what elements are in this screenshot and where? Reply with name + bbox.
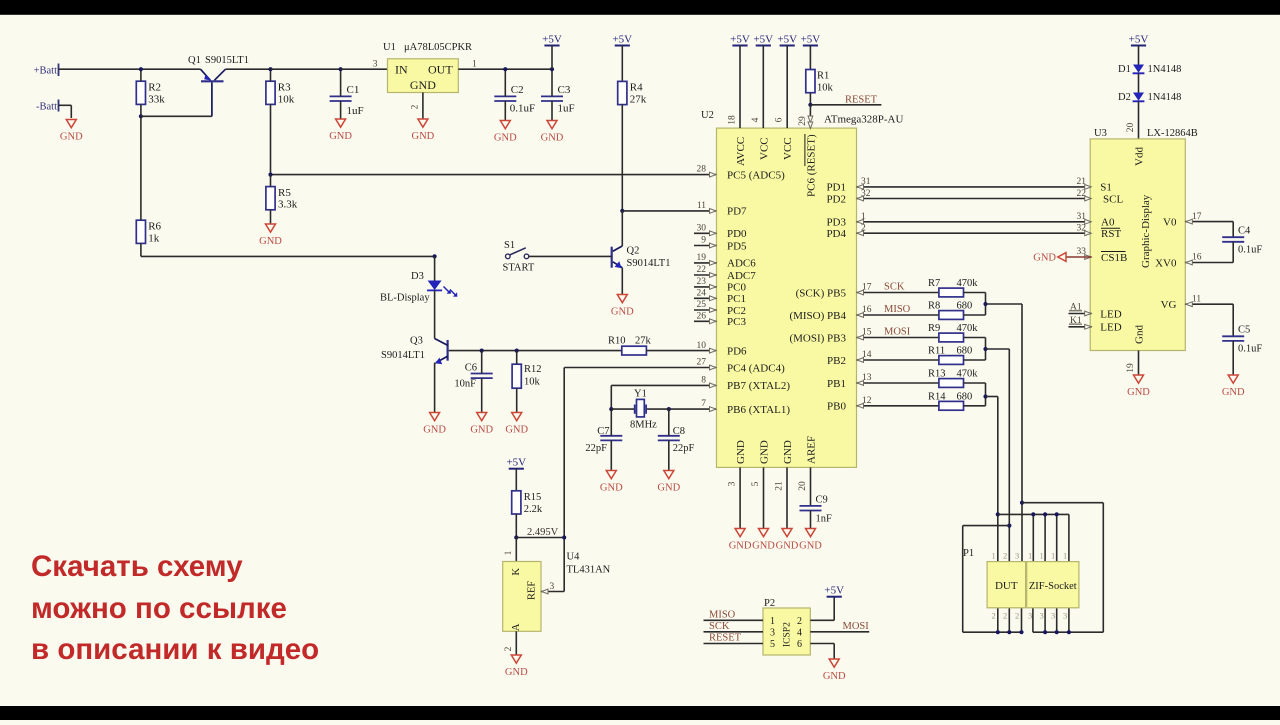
node -Batt terminal xyxy=(36,100,59,113)
wire net2 P1 frame xyxy=(963,526,1022,633)
svg-text:D2: D2 xyxy=(1118,92,1131,103)
svg-text:3: 3 xyxy=(1063,611,1067,621)
junction DUT bottom a xyxy=(996,630,1000,634)
pin number 1 U4 xyxy=(504,550,514,555)
wire net DUT1 vertical xyxy=(997,397,999,562)
ground R5 xyxy=(259,224,282,247)
pin 9 PD5 xyxy=(694,236,747,253)
label D3 xyxy=(380,271,430,304)
junction R12 top xyxy=(515,349,519,353)
svg-text:SCL: SCL xyxy=(1103,193,1123,205)
svg-text:19: 19 xyxy=(697,253,707,263)
wire net3 to ZIF bottom xyxy=(1022,503,1103,633)
svg-text:2.495V: 2.495V xyxy=(527,527,559,538)
svg-text:GND: GND xyxy=(752,541,775,552)
caption line 1 xyxy=(31,550,243,583)
label U3 xyxy=(1094,128,1107,139)
svg-text:20: 20 xyxy=(798,481,808,491)
power +5V at P2 xyxy=(824,585,844,597)
wire ZIF bottom pin d xyxy=(1068,608,1070,632)
label U1 GND xyxy=(410,78,436,92)
svg-text:R11: R11 xyxy=(928,346,945,357)
LED D3 xyxy=(427,281,457,297)
wire C5 bottom lead xyxy=(1232,341,1234,375)
svg-text:1: 1 xyxy=(472,59,477,69)
svg-text:+5V: +5V xyxy=(777,33,797,45)
svg-text:PD7: PD7 xyxy=(727,206,747,218)
svg-text:27k: 27k xyxy=(635,336,652,347)
wire R7-R8 join xyxy=(985,293,987,316)
wire net DUT3 vertical xyxy=(1021,304,1023,562)
svg-text:RESET: RESET xyxy=(845,95,878,106)
svg-text:PC4 (ADC4): PC4 (ADC4) xyxy=(727,362,785,374)
svg-text:ADC7: ADC7 xyxy=(727,270,756,282)
pin 17 PB5 xyxy=(796,282,939,300)
pin 14 PB2 xyxy=(827,350,939,367)
wire GND pin21 xyxy=(786,467,788,528)
svg-text:+Batt: +Batt xyxy=(34,66,58,77)
svg-text:C8: C8 xyxy=(673,426,685,437)
pin 28 PC5 (ADC5) xyxy=(697,165,786,182)
svg-text:Q1: Q1 xyxy=(188,55,201,66)
pin number 8 xyxy=(701,376,706,386)
pin 22 ADC7 xyxy=(694,265,756,282)
wire C8 top lead xyxy=(668,409,670,436)
label GND pin21 xyxy=(782,440,794,464)
svg-text:V0: V0 xyxy=(1163,216,1177,228)
label Q2 xyxy=(627,246,671,269)
junction R2 bottom / Q1 base xyxy=(139,114,143,118)
svg-text:+5V: +5V xyxy=(506,457,526,469)
junction 2.495V right xyxy=(562,535,566,539)
svg-text:+5V: +5V xyxy=(824,585,844,597)
svg-text:PC3: PC3 xyxy=(727,316,746,328)
svg-text:MISO: MISO xyxy=(709,610,736,621)
svg-text:GND: GND xyxy=(799,541,822,552)
wire C8 bottom lead xyxy=(668,440,670,470)
capacitor C7 xyxy=(585,426,622,454)
ground U2 pin5 xyxy=(752,529,775,552)
svg-text:1nF: 1nF xyxy=(816,514,833,525)
svg-text:GND: GND xyxy=(657,483,680,494)
svg-text:REF: REF xyxy=(527,581,538,600)
pin 32 PD2 wire xyxy=(826,189,1091,205)
wire 2.495V net xyxy=(516,537,564,539)
svg-text:GND: GND xyxy=(494,133,517,144)
svg-text:33k: 33k xyxy=(148,93,165,105)
wire ZIF bottom pin c xyxy=(1056,608,1058,632)
connector P1 DUT body xyxy=(987,562,1026,608)
pin number 19 U3 xyxy=(1126,363,1136,373)
svg-text:17: 17 xyxy=(1192,212,1202,222)
svg-text:23: 23 xyxy=(697,277,707,287)
svg-text:START: START xyxy=(503,263,535,274)
ground CS1B arrow xyxy=(1033,253,1066,264)
label U4 xyxy=(567,552,611,576)
pin number 10 xyxy=(697,341,707,351)
svg-text:PD4: PD4 xyxy=(826,228,846,240)
pin 31 PD1 wire xyxy=(826,177,1091,194)
pin number 2 of U1 xyxy=(410,105,420,110)
pin 11 PD7 xyxy=(697,201,747,218)
svg-text:1: 1 xyxy=(1051,551,1055,561)
pin 11 VG xyxy=(1161,294,1234,311)
pin number 29 xyxy=(798,116,808,126)
wire ZIF bottom pin b xyxy=(1044,608,1046,632)
svg-text:Q3: Q3 xyxy=(410,336,423,347)
pin number 20 bottom xyxy=(798,481,808,491)
power +5V at R15 xyxy=(506,457,526,491)
ground R12 xyxy=(505,413,528,436)
caption line 2 xyxy=(31,592,287,625)
wire AREF lead xyxy=(810,467,812,506)
wire DUT bottom pin a xyxy=(997,608,999,632)
svg-text:8: 8 xyxy=(701,376,706,386)
wire R9-R11 join xyxy=(985,338,987,361)
svg-text:GND: GND xyxy=(259,236,282,247)
svg-text:3.3k: 3.3k xyxy=(278,199,298,211)
svg-text:27: 27 xyxy=(697,358,707,368)
svg-text:GND: GND xyxy=(505,425,528,436)
svg-text:GND: GND xyxy=(410,78,436,92)
pin number 20 U3 xyxy=(1126,123,1136,133)
svg-text:1: 1 xyxy=(861,212,866,222)
svg-text:1: 1 xyxy=(770,616,775,627)
svg-text:2: 2 xyxy=(1003,551,1007,561)
resistor R15 xyxy=(512,491,543,515)
pin 33 CS1B xyxy=(1077,247,1128,264)
svg-text:TL431AN: TL431AN xyxy=(567,565,611,576)
wire ZIF top pin d xyxy=(1068,514,1070,561)
svg-text:1N4148: 1N4148 xyxy=(1148,64,1182,75)
ground -Batt xyxy=(60,120,83,143)
svg-text:4: 4 xyxy=(797,628,802,639)
svg-text:DUT: DUT xyxy=(995,580,1018,592)
svg-text:R6: R6 xyxy=(148,221,161,233)
transistor Q2 xyxy=(612,246,623,268)
svg-text:25: 25 xyxy=(697,300,707,310)
ground U2 pin3 xyxy=(729,529,752,552)
pin 25 PC2 xyxy=(694,300,746,317)
junction C3 top xyxy=(550,67,554,71)
svg-text:470k: 470k xyxy=(957,369,979,380)
svg-text:+5V: +5V xyxy=(1129,33,1149,45)
svg-text:R3: R3 xyxy=(278,82,291,94)
pin 13 PB1 xyxy=(827,373,939,390)
pin 4 MOSI wire xyxy=(810,621,869,632)
wire CS1B gnd xyxy=(1066,256,1092,258)
resistor R8 xyxy=(928,301,986,320)
capacitor C1 xyxy=(330,84,364,117)
svg-text:2: 2 xyxy=(410,105,420,110)
wire C1 top lead xyxy=(340,69,342,96)
wire R13R14 to DUT1 xyxy=(986,396,998,398)
resistor R9 xyxy=(928,323,986,342)
svg-text:PC5 (ADC5): PC5 (ADC5) xyxy=(727,169,785,181)
wire R1 to RESET node xyxy=(809,93,811,105)
pin number 4 xyxy=(751,117,761,122)
wire D1 to D2 xyxy=(1138,73,1140,92)
svg-text:RESET: RESET xyxy=(709,633,742,644)
wire main to C1 node xyxy=(271,68,341,70)
junction ZIF b xyxy=(1043,512,1047,516)
svg-text:10k: 10k xyxy=(524,377,541,388)
wire PC4 down to REF xyxy=(563,368,565,592)
wire PD7 xyxy=(622,210,716,212)
wire PC4 pin xyxy=(564,367,716,369)
wire C1 bottom lead xyxy=(340,101,342,119)
svg-text:(MOSI) PB3: (MOSI) PB3 xyxy=(789,332,846,344)
svg-text:GND: GND xyxy=(1222,387,1245,398)
svg-text:3: 3 xyxy=(770,628,775,639)
wire GND pin3 xyxy=(739,467,741,528)
svg-text:PD5: PD5 xyxy=(727,240,747,252)
wire U4 pin2 lead xyxy=(515,631,517,655)
pin name PB7 xyxy=(710,380,791,392)
pin number 2 U4 xyxy=(504,646,514,651)
resistor R12 xyxy=(512,364,541,388)
svg-text:S9014LT1: S9014LT1 xyxy=(627,258,671,269)
resistor R6 xyxy=(136,220,161,244)
wire DUT bottom pin c xyxy=(1021,608,1023,632)
junction ZIF bottom b xyxy=(1043,630,1047,634)
svg-text:U2: U2 xyxy=(701,110,714,121)
pin K1 LED xyxy=(1069,316,1122,334)
pin name PC4 xyxy=(710,362,786,374)
wire R3 top lead xyxy=(270,69,272,81)
wire R7R8 to DUT3 xyxy=(986,303,1023,305)
svg-text:LED: LED xyxy=(1100,322,1121,334)
svg-text:C4: C4 xyxy=(1238,225,1251,236)
svg-text:2: 2 xyxy=(797,616,802,627)
svg-text:1uF: 1uF xyxy=(558,102,575,114)
wire Q1 base to R2 xyxy=(141,115,212,117)
svg-text:C9: C9 xyxy=(816,495,828,506)
svg-text:R7: R7 xyxy=(928,278,940,289)
svg-text:3: 3 xyxy=(373,59,378,69)
svg-text:GND: GND xyxy=(1127,387,1150,398)
junction R3 top xyxy=(268,67,272,71)
power +5V pin 6 xyxy=(777,33,797,128)
svg-text:C6: C6 xyxy=(465,363,477,374)
svg-text:32: 32 xyxy=(861,189,871,199)
wire C2 top lead xyxy=(504,69,506,96)
junction net3 corner xyxy=(1020,501,1024,505)
svg-text:Q2: Q2 xyxy=(627,246,640,257)
power +5V at R4 xyxy=(612,33,632,81)
svg-text:GND: GND xyxy=(611,307,634,318)
capacitor C3 xyxy=(541,84,575,114)
svg-text:S9014LT1: S9014LT1 xyxy=(381,350,425,361)
wire PB6 pin xyxy=(669,408,717,410)
svg-text:12: 12 xyxy=(862,396,872,406)
svg-text:33: 33 xyxy=(1077,247,1087,257)
ground C1 xyxy=(329,119,352,142)
label Vdd xyxy=(1134,147,1146,166)
pin 22 SCL xyxy=(1077,189,1124,205)
svg-text:GND: GND xyxy=(729,541,752,552)
label ATmega328P-AU xyxy=(824,114,903,126)
svg-text:C5: C5 xyxy=(1238,324,1250,335)
wire C3 top lead xyxy=(551,69,553,96)
svg-text:K: K xyxy=(511,568,522,576)
svg-text:SCK: SCK xyxy=(884,282,905,293)
wire Q2 emitter lead xyxy=(621,268,623,295)
svg-text:3: 3 xyxy=(1028,611,1032,621)
ground C2 xyxy=(494,121,517,144)
pin 31 A0 xyxy=(1077,212,1121,229)
svg-text:3: 3 xyxy=(1051,611,1055,621)
ground Q2 xyxy=(611,295,634,318)
ground U3 xyxy=(1127,375,1150,398)
svg-text:D1: D1 xyxy=(1118,64,1131,75)
label RESET net xyxy=(845,95,878,106)
svg-text:0.1uF: 0.1uF xyxy=(1238,344,1262,355)
svg-text:μA78L05CPKR: μA78L05CPKR xyxy=(404,42,472,53)
svg-text:470k: 470k xyxy=(957,323,979,334)
resistor R2 xyxy=(136,81,165,105)
junction R13R14 xyxy=(983,394,987,398)
wire -Batt to ground xyxy=(59,105,72,118)
svg-text:R13: R13 xyxy=(928,369,946,380)
svg-text:PD0: PD0 xyxy=(727,228,747,240)
svg-text:11: 11 xyxy=(1192,294,1201,304)
label VCC pin6 xyxy=(782,137,794,160)
svg-text:10: 10 xyxy=(697,341,707,351)
svg-text:GND: GND xyxy=(1033,253,1056,264)
label 2.495V xyxy=(527,527,559,538)
svg-text:0.1uF: 0.1uF xyxy=(510,102,535,114)
svg-text:1uF: 1uF xyxy=(347,105,364,117)
label U1 OUT xyxy=(428,63,453,77)
svg-text:1: 1 xyxy=(1040,551,1044,561)
op-amp U1 regulator body xyxy=(388,59,459,93)
svg-text:C3: C3 xyxy=(558,84,571,96)
wire C4 to XV0 xyxy=(1232,242,1234,263)
pin number 6 xyxy=(775,117,785,122)
svg-text:LX-12864B: LX-12864B xyxy=(1147,128,1198,139)
svg-text:Скачать схему: Скачать схему xyxy=(31,550,243,583)
resistor R3 xyxy=(266,81,295,105)
pin number 21 bottom xyxy=(775,481,785,491)
transistor Q3 xyxy=(435,339,448,365)
junction ZIF a xyxy=(1031,512,1035,516)
label AVCC xyxy=(735,137,747,166)
letterbox top bar xyxy=(0,0,1280,15)
wire U3 Gnd lead xyxy=(1138,351,1140,376)
wire D3 anode lead xyxy=(434,256,436,280)
wire ZIF top pin b xyxy=(1044,514,1046,561)
junction R3/R5/PC5 xyxy=(268,173,272,177)
svg-text:2: 2 xyxy=(861,223,866,233)
junction RESET xyxy=(808,103,812,107)
resistor R13 xyxy=(928,369,986,388)
junction net2 corner xyxy=(1007,524,1011,528)
wire RESET net xyxy=(810,104,881,106)
svg-text:13: 13 xyxy=(862,373,872,383)
svg-text:LED: LED xyxy=(1100,308,1121,320)
wire Q1 collector to R3 node xyxy=(226,68,271,70)
label Y1 xyxy=(630,389,657,431)
svg-text:1: 1 xyxy=(1063,551,1067,561)
svg-text:PB6 (XTAL1): PB6 (XTAL1) xyxy=(727,404,790,416)
resistor R11 xyxy=(928,346,986,365)
svg-text:R9: R9 xyxy=(928,323,940,334)
svg-text:PD6: PD6 xyxy=(727,345,747,357)
svg-text:PC6 (RESET): PC6 (RESET) xyxy=(805,134,817,197)
pin number 18 xyxy=(728,115,738,125)
diode D2 xyxy=(1133,93,1145,102)
wire R2 bottom lead xyxy=(140,104,142,116)
svg-text:+5V: +5V xyxy=(542,33,562,45)
svg-text:11: 11 xyxy=(697,201,706,211)
svg-text:31: 31 xyxy=(861,177,871,187)
switch S1 xyxy=(506,248,529,259)
capacitor C9 xyxy=(800,495,833,525)
svg-text:19: 19 xyxy=(1126,363,1136,373)
svg-text:22pF: 22pF xyxy=(673,443,695,454)
P1 pin numbers top xyxy=(992,551,1068,561)
svg-text:GND: GND xyxy=(735,440,747,464)
ground C6 xyxy=(470,413,493,436)
op-amp U4 TL431 body xyxy=(503,562,541,632)
svg-text:Gnd: Gnd xyxy=(1134,325,1146,344)
pin 17 V0 xyxy=(1163,212,1233,229)
label D1 xyxy=(1118,64,1181,75)
svg-text:14: 14 xyxy=(862,350,872,360)
svg-text:VCC: VCC xyxy=(758,137,770,160)
svg-text:3: 3 xyxy=(728,481,738,486)
label S1 xyxy=(503,240,535,274)
pin 1 MISO xyxy=(704,610,764,621)
svg-text:1: 1 xyxy=(1028,551,1032,561)
svg-text:PB0: PB0 xyxy=(827,401,846,413)
svg-text:+5V: +5V xyxy=(801,33,821,45)
svg-text:GND: GND xyxy=(541,133,564,144)
svg-text:ATmega328P-AU: ATmega328P-AU xyxy=(824,114,903,126)
svg-text:15: 15 xyxy=(862,328,872,338)
pin name PB6 xyxy=(710,404,791,416)
svg-text:28: 28 xyxy=(697,165,707,175)
ground Q3 xyxy=(423,413,446,436)
svg-text:29: 29 xyxy=(798,116,808,126)
svg-text:R10: R10 xyxy=(608,336,626,347)
svg-text:GND: GND xyxy=(423,425,446,436)
ground C5 xyxy=(1222,375,1245,398)
wire net1 to ZIF top xyxy=(998,513,1069,515)
svg-text:2: 2 xyxy=(1003,611,1007,621)
svg-text:GND: GND xyxy=(600,483,623,494)
svg-text:R2: R2 xyxy=(148,82,161,94)
wire R15 bottom lead xyxy=(515,514,517,538)
wire PC5 net xyxy=(271,174,717,176)
svg-text:можно по ссылке: можно по ссылке xyxy=(31,592,287,625)
label ICSP1 xyxy=(783,622,793,647)
svg-text:10nF: 10nF xyxy=(454,379,476,390)
resistor R4 xyxy=(618,81,647,105)
power +5V at C3 xyxy=(542,33,562,69)
wire U1 GND lead xyxy=(422,93,424,120)
wire V0 to C4 xyxy=(1232,222,1234,238)
svg-text:2: 2 xyxy=(992,611,996,621)
label Graphic-Display xyxy=(1140,194,1152,268)
caption line 3 xyxy=(31,633,319,666)
svg-text:VG: VG xyxy=(1161,299,1177,311)
junction C1 top xyxy=(339,67,343,71)
label U4 K xyxy=(511,568,522,576)
svg-text:RST: RST xyxy=(1101,228,1121,240)
transistor Q1 xyxy=(201,69,226,116)
